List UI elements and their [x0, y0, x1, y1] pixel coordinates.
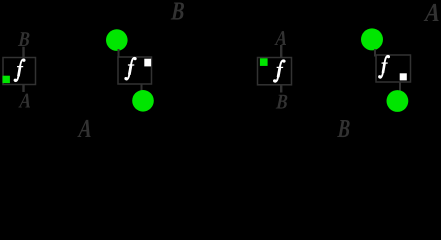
node B (input label of diagram 1) — [17, 29, 31, 52]
box f2 — [118, 57, 152, 84]
svg-text:A: A — [422, 0, 441, 27]
wire dot to box f4 — [374, 49, 376, 57]
green node dot (bottom of diagram 2) — [132, 90, 154, 112]
svg-text:B: B — [336, 114, 351, 142]
green node dot (bottom of diagram 4) — [387, 90, 409, 112]
svg-text:B: B — [170, 0, 186, 25]
box f1 — [3, 58, 36, 85]
f1 label — [14, 59, 26, 82]
white square marker on box f4 (bottom-right) — [400, 73, 407, 80]
box f3 — [258, 58, 292, 85]
node B (large label top middle) — [170, 0, 186, 25]
node B (large label bottom of diagram 4) — [336, 114, 351, 143]
wire box f1 to A — [22, 85, 24, 93]
wire box f2 to bottom dot — [141, 84, 143, 92]
svg-text:A: A — [18, 90, 32, 113]
f2 label — [124, 57, 136, 80]
white square marker on box f2 (top-right) — [144, 59, 151, 67]
node B (output label of diagram 3) — [275, 91, 289, 114]
f4 label — [378, 55, 390, 78]
green square marker on box f3 (top-left) — [260, 58, 268, 66]
node A (large label bottom of diagram 2) — [76, 113, 93, 142]
wire B to box f1 — [22, 47, 24, 58]
wire dot to box f2 — [118, 49, 120, 58]
green square marker on box f1 (bottom-left) — [3, 76, 10, 83]
node A (output label of diagram 1) — [18, 90, 32, 113]
wire box f4 to bottom dot — [399, 82, 401, 91]
svg-text:B: B — [275, 91, 289, 114]
f3 label — [273, 60, 286, 83]
green node dot (top of diagram 4) — [361, 28, 383, 50]
box f4 — [376, 55, 411, 82]
green node dot (top of diagram 2) — [106, 29, 128, 51]
wire box f3 to B — [280, 85, 282, 93]
node A (input label of diagram 3) — [274, 27, 288, 50]
wire A to box f3 — [280, 45, 282, 58]
node A (large label top right) — [422, 0, 441, 27]
